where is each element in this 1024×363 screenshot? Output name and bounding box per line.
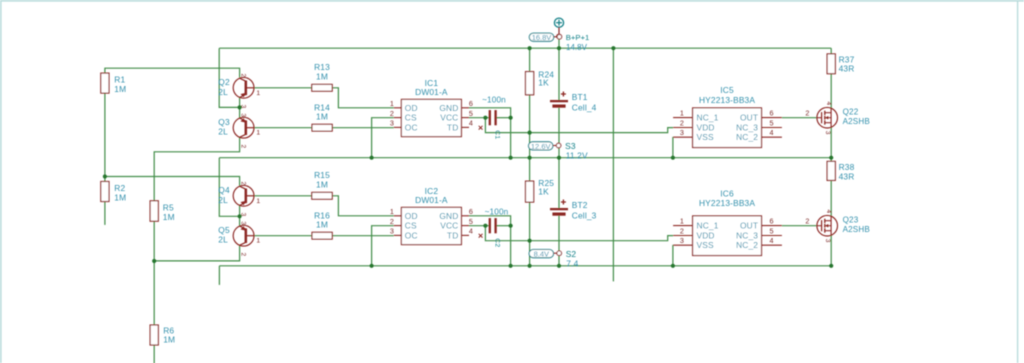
svg-text:1: 1	[256, 238, 260, 245]
svg-text:2: 2	[390, 217, 394, 226]
svg-text:VSS: VSS	[697, 240, 714, 250]
svg-text:R2: R2	[114, 183, 125, 193]
node Q2/Q3 emitters	[238, 105, 242, 109]
wire R15 to IC2 OD	[332, 196, 394, 216]
svg-text:A2SHB: A2SHB	[843, 225, 870, 234]
node S3 / R-chain	[528, 156, 532, 160]
svg-text:11.2V: 11.2V	[566, 151, 588, 161]
svg-text:1M: 1M	[316, 220, 328, 230]
resistor R24	[526, 70, 555, 95]
svg-text:1: 1	[256, 130, 260, 137]
resistor R16	[312, 210, 332, 239]
svg-text:5: 5	[770, 118, 774, 127]
wire R14 to IC1 OC	[332, 127, 394, 129]
wire R2 bottom stub	[104, 202, 106, 225]
wire Q22 source to S3	[830, 127, 832, 158]
node GND1 cap tap	[509, 116, 513, 120]
svg-text:IC5: IC5	[720, 85, 734, 95]
svg-text:R1: R1	[114, 75, 125, 85]
resistor R13	[312, 62, 332, 91]
svg-text:Q2: Q2	[218, 77, 230, 87]
resistor R15	[312, 170, 332, 199]
wire B+ flag stem	[558, 39, 560, 48]
node feed1 / R24	[528, 131, 532, 135]
wire R1-R2 link	[104, 93, 106, 181]
wire VCC2 feed to IC6 VDD	[485, 226, 673, 241]
wire S3 to R38	[830, 158, 832, 162]
node VCC2 cap	[483, 224, 487, 228]
svg-text:DW01-A: DW01-A	[415, 195, 448, 205]
svg-text:VCC: VCC	[440, 113, 458, 123]
svg-text:VSS: VSS	[697, 132, 714, 142]
node S3 / BT1	[557, 156, 561, 160]
svg-text:2: 2	[390, 109, 394, 118]
svg-text:2: 2	[805, 217, 809, 226]
svg-text:4: 4	[770, 236, 774, 245]
svg-text:2: 2	[240, 182, 247, 186]
wire Q2 emitter	[239, 97, 241, 107]
wire VCC1 feed to IC5 VDD	[485, 118, 673, 133]
node S3 / IC5 VSS	[671, 156, 675, 160]
wire B+ drop to Q2/Q3 node	[219, 48, 239, 107]
svg-text:OC: OC	[405, 122, 418, 132]
svg-text:3: 3	[824, 239, 831, 243]
resistor R38	[827, 161, 855, 181]
node VCC1 cap	[483, 116, 487, 120]
transistor Q22	[805, 102, 869, 135]
wire IC5 VSS to S3	[672, 138, 674, 158]
wire bus to R37	[830, 48, 832, 54]
wire Q4 emitter	[239, 205, 241, 216]
svg-text:3: 3	[240, 113, 247, 117]
net label 16.8V	[529, 33, 561, 42]
svg-text:1: 1	[256, 198, 260, 205]
node R5/Q5/R6	[152, 259, 156, 263]
svg-text:3: 3	[680, 236, 684, 245]
svg-text:5: 5	[469, 109, 473, 118]
svg-text:NC_3: NC_3	[736, 123, 758, 133]
svg-text:VDD: VDD	[697, 231, 715, 241]
svg-text:2L: 2L	[218, 195, 228, 205]
svg-text:~100n: ~100n	[482, 96, 506, 105]
svg-text:2: 2	[805, 109, 809, 118]
svg-text:5: 5	[469, 217, 473, 226]
wire R24 top	[529, 48, 531, 71]
node S2 / Q23 source	[829, 264, 833, 268]
wire BT2 bottom	[558, 216, 560, 266]
svg-text:1: 1	[680, 108, 684, 117]
svg-text:1M: 1M	[114, 192, 126, 202]
svg-text:A2SHB: A2SHB	[843, 117, 870, 126]
svg-text:IC6: IC6	[720, 189, 734, 199]
wire cap C1 right link	[496, 117, 511, 119]
net label 8.4V / node S2	[529, 249, 578, 269]
wire S3 bus	[219, 157, 831, 159]
svg-text:1M: 1M	[163, 334, 175, 344]
svg-text:DW01-A: DW01-A	[415, 87, 448, 97]
resistor R1	[101, 73, 126, 94]
svg-text:3: 3	[680, 128, 684, 137]
svg-text:14.8V: 14.8V	[566, 43, 588, 52]
wire Q23 source to S2	[830, 235, 832, 266]
svg-text:2: 2	[680, 226, 684, 235]
wire Q2 base to R13	[254, 87, 311, 89]
wire S3 to Q4/Q5 node	[219, 158, 239, 217]
svg-text:HY2213-BB3A: HY2213-BB3A	[699, 198, 755, 208]
node S2 / BT2	[557, 264, 561, 268]
svg-text:~100n: ~100n	[485, 208, 509, 217]
node S2 / GND2	[509, 264, 513, 268]
svg-text:VDD: VDD	[697, 123, 715, 133]
svg-text:OD: OD	[405, 103, 418, 113]
resistor R37	[827, 54, 855, 74]
svg-text:1M: 1M	[316, 71, 328, 81]
resistor R2	[101, 182, 126, 203]
wire S2 left stub	[218, 266, 220, 285]
svg-text:OUT: OUT	[740, 113, 758, 123]
transistor Q4	[218, 182, 260, 217]
svg-text:S3: S3	[565, 141, 576, 151]
svg-text:4: 4	[825, 102, 832, 106]
IC U1 IC1 DW01-A	[390, 78, 473, 137]
svg-text:BT2: BT2	[572, 200, 588, 210]
battery BT1	[550, 92, 597, 113]
node R1/R2/Q4-bus	[103, 174, 107, 178]
wire R16 to IC2 OC	[332, 235, 394, 237]
svg-text:8.4V: 8.4V	[534, 250, 549, 259]
svg-text:OD: OD	[405, 211, 418, 221]
svg-text:Q22: Q22	[843, 108, 859, 117]
svg-text:3: 3	[824, 131, 831, 135]
node S2 / CS2	[370, 264, 374, 268]
wire BT2 top	[558, 158, 560, 208]
wire R6 bottom	[153, 345, 155, 363]
svg-text:6: 6	[770, 108, 774, 117]
svg-text:Cell_3: Cell_3	[572, 210, 597, 220]
node S3 / Q22 source	[829, 156, 833, 160]
IC U5 IC5 HY2213-BB3A	[673, 85, 782, 147]
svg-text:HY2213-BB3A: HY2213-BB3A	[699, 95, 755, 105]
page border left	[0, 0, 2, 363]
wire IC5 OUT to Q22 gate	[782, 117, 817, 119]
wire long B+ vertical	[612, 48, 614, 281]
svg-text:1: 1	[256, 90, 260, 97]
svg-text:Q3: Q3	[218, 117, 230, 127]
svg-text:OC: OC	[405, 230, 418, 240]
transistor Q3	[218, 113, 260, 148]
wire Q5 base to R16	[254, 235, 312, 237]
svg-text:2L: 2L	[218, 87, 228, 97]
node GND2 cap tap	[509, 224, 513, 228]
svg-text:BT1: BT1	[572, 92, 588, 102]
svg-text:Q23: Q23	[843, 216, 859, 225]
capacitor C1	[482, 96, 506, 140]
svg-text:3: 3	[240, 221, 247, 225]
svg-text:43R: 43R	[839, 64, 855, 74]
svg-text:NC_3: NC_3	[736, 231, 758, 241]
svg-text:VCC: VCC	[440, 221, 458, 231]
svg-text:NC_2: NC_2	[736, 132, 758, 142]
svg-text:Q5: Q5	[218, 225, 230, 235]
node S2 / IC6 VSS	[671, 264, 675, 268]
transistor Q23	[805, 210, 869, 243]
node S3 / CS1	[370, 156, 374, 160]
svg-text:4: 4	[469, 227, 473, 236]
wire R25 bottom chain	[529, 202, 531, 266]
svg-text:OUT: OUT	[740, 221, 758, 231]
svg-text:1: 1	[390, 207, 394, 216]
svg-text:Cell_4: Cell_4	[572, 102, 597, 112]
svg-text:6: 6	[770, 216, 774, 225]
svg-text:12.6V: 12.6V	[531, 142, 551, 151]
battery BT2	[550, 200, 597, 221]
svg-text:1M: 1M	[316, 112, 328, 122]
transistor Q2	[218, 74, 260, 109]
svg-text:TD: TD	[447, 230, 458, 240]
wire IC6 OUT to Q23 gate	[782, 225, 817, 227]
svg-text:B+P+1: B+P+1	[566, 33, 590, 42]
svg-text:2: 2	[240, 74, 247, 78]
wire R37 to Q22 drain	[830, 74, 832, 109]
svg-text:NC_1: NC_1	[697, 113, 719, 123]
node S2 / R-chain	[528, 264, 532, 268]
svg-text:C1: C1	[493, 130, 500, 139]
wire Q3 base to R14	[254, 127, 312, 129]
wire IC6 VSS to S2	[672, 246, 674, 266]
svg-text:2L: 2L	[218, 127, 228, 137]
wire cap C2 right link	[496, 225, 511, 227]
wire R5 bottom	[153, 221, 155, 261]
wire Q5 collector to R5/R6 node	[154, 246, 239, 261]
svg-text:S2: S2	[566, 249, 577, 259]
no-connect x on IC2 TD	[479, 234, 483, 238]
svg-text:16.8V: 16.8V	[532, 33, 552, 42]
svg-text:2: 2	[680, 118, 684, 127]
svg-text:NC_1: NC_1	[697, 221, 719, 231]
IC U2 IC2 DW01-A	[390, 186, 473, 245]
node feed2 / R25	[528, 239, 532, 243]
svg-text:1K: 1K	[538, 186, 549, 196]
svg-text:43R: 43R	[839, 171, 855, 181]
node Q4/Q5 emitters	[238, 214, 242, 218]
wire IC2 VCC node	[469, 225, 490, 227]
capacitor C2	[485, 208, 509, 248]
wire R2 bus to Q4	[105, 177, 240, 186]
svg-text:TD: TD	[447, 122, 458, 132]
wire R6 top	[153, 261, 155, 325]
svg-text:1M: 1M	[163, 212, 175, 222]
wire R38 to Q23 drain	[830, 180, 832, 216]
svg-text:5: 5	[770, 226, 774, 235]
wire IC1 GND to S3	[469, 108, 511, 158]
svg-text:4: 4	[469, 119, 473, 128]
wire R1 top bus	[105, 68, 240, 77]
wire IC1 VCC node	[469, 117, 490, 119]
svg-text:2: 2	[240, 253, 247, 257]
resistor R5	[150, 201, 175, 222]
resistor R14	[312, 102, 332, 131]
power flag B+P+1	[554, 18, 589, 52]
wire S3 to R25	[529, 158, 531, 181]
svg-text:3: 3	[390, 119, 394, 128]
svg-text:4: 4	[825, 210, 832, 214]
svg-text:CS: CS	[405, 221, 417, 231]
wire Q5 emitter	[239, 216, 241, 226]
svg-text:6: 6	[469, 99, 473, 108]
IC U6 IC6 HY2213-BB3A	[673, 189, 782, 256]
wire Q3 emitter	[239, 107, 241, 118]
svg-text:GND: GND	[439, 211, 458, 221]
svg-text:4: 4	[770, 128, 774, 137]
wire R13 to IC1 OD	[332, 88, 394, 108]
svg-text:6: 6	[469, 207, 473, 216]
wire IC2 CS to S2	[372, 226, 394, 266]
transistor Q5	[218, 221, 260, 256]
svg-text:C2: C2	[493, 238, 500, 247]
svg-text:1M: 1M	[316, 179, 328, 189]
resistor R25	[526, 178, 555, 202]
svg-text:2L: 2L	[218, 235, 228, 245]
net label 12.6V / node S3	[529, 141, 588, 161]
node S3 / GND1	[509, 156, 513, 160]
wire B+ bus	[219, 47, 831, 49]
wire BT1 top	[558, 48, 560, 100]
node B+ / long vertical	[611, 46, 615, 50]
node B+ / BT1	[557, 46, 561, 50]
wire Q4 base to R15	[254, 195, 311, 197]
wire IC2 GND to S2	[469, 216, 511, 266]
svg-text:1M: 1M	[114, 84, 126, 94]
svg-text:1: 1	[680, 216, 684, 225]
resistor R6	[150, 325, 175, 345]
svg-text:7.4: 7.4	[566, 258, 578, 268]
page border right	[1017, 0, 1019, 363]
wire BT1 bottom	[558, 108, 560, 158]
no-connect x on IC1 TD	[479, 126, 483, 130]
svg-text:3: 3	[390, 227, 394, 236]
node B+ / R24	[528, 46, 532, 50]
svg-text:1: 1	[390, 99, 394, 108]
wire IC1 CS to S3	[372, 118, 394, 158]
wire R24 bottom chain	[529, 95, 531, 158]
page border top	[0, 0, 1024, 2]
svg-text:GND: GND	[439, 103, 458, 113]
wire S2 bus	[219, 265, 831, 267]
svg-text:CS: CS	[405, 113, 417, 123]
svg-text:2: 2	[240, 145, 247, 149]
svg-text:Q4: Q4	[218, 185, 230, 195]
wire Q3 collector to R5	[154, 137, 239, 201]
svg-text:1K: 1K	[538, 78, 549, 88]
svg-text:NC_2: NC_2	[736, 240, 758, 250]
